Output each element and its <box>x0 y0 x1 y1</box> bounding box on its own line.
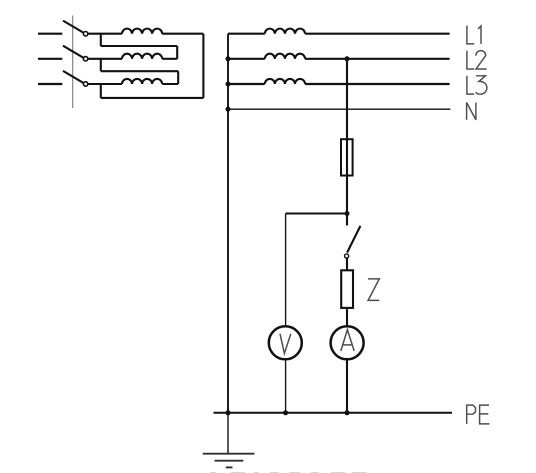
junction L2 tap <box>345 56 350 61</box>
wire impedance to ammeter <box>346 308 348 327</box>
inductor line choke L2 <box>265 54 305 59</box>
wire delta inner riser b <box>176 46 178 59</box>
voltmeter P1 body <box>269 326 302 359</box>
wire line L2 left <box>228 58 265 60</box>
wire ammeter to PE <box>346 359 348 413</box>
inductor Lb <box>122 54 162 59</box>
wire line L1 right <box>305 33 450 35</box>
inductor Lc <box>122 79 162 84</box>
switch S1 pole 3 contact <box>83 82 87 86</box>
junction bus-L2 <box>226 56 231 61</box>
wire line PE <box>214 412 453 414</box>
wire line L3 right <box>305 83 450 85</box>
ammeter P2 body <box>331 326 364 359</box>
wire switch pole 3 to inductor Lc <box>88 83 122 85</box>
label L2 <box>467 51 487 69</box>
junction bus-L3 <box>226 82 231 87</box>
wire line N <box>228 108 450 110</box>
junction bus-N <box>226 107 231 112</box>
junction tap node <box>345 211 350 216</box>
wire delta left riser B <box>100 59 102 71</box>
voltmeter letter V <box>280 334 291 354</box>
switch S1 pole 3 blade <box>63 71 84 83</box>
wire earth stem <box>227 413 229 454</box>
wire voltmeter to PE <box>285 359 287 413</box>
caption remnant (cropped text tops) <box>210 472 367 473</box>
switch S1 pole 1 blade <box>63 21 84 33</box>
label Z <box>368 279 379 301</box>
junction voltmeter-PE <box>283 410 288 415</box>
label L3 <box>467 76 487 94</box>
wire delta left riser C <box>100 34 102 46</box>
wire voltmeter branch vertical <box>285 214 287 327</box>
wire delta middle return <box>101 70 178 72</box>
wire line L3 left <box>228 83 265 85</box>
label PE <box>467 405 490 424</box>
wire contact to impedance <box>346 258 348 270</box>
switch S2 contact <box>345 254 349 258</box>
wire measuring branch from L2 <box>346 59 348 226</box>
wire inductor La output <box>162 33 203 35</box>
wire delta bottom edge <box>101 97 204 99</box>
wire supply bus vertical <box>227 34 229 413</box>
wire delta left riser A <box>100 84 102 98</box>
switch S2 blade <box>347 226 360 253</box>
switch S1 pole 3 input stub <box>38 83 62 85</box>
inductor line choke L1 <box>265 29 305 34</box>
inductor line choke L3 <box>265 79 305 84</box>
wire line L2 right <box>305 58 450 60</box>
wire delta right edge <box>202 34 204 98</box>
wire inductor Lc output <box>162 83 178 85</box>
switch S1 pole 2 contact <box>83 57 87 61</box>
ammeter letter A <box>341 330 354 351</box>
wire delta inner riser c <box>177 71 179 84</box>
wire delta upper return <box>101 45 177 47</box>
wire line L1 left <box>228 33 265 35</box>
switch S1 pole 1 contact <box>83 32 87 36</box>
label N <box>467 103 476 120</box>
fuse F1 <box>341 139 353 175</box>
switch S1 pole 2 input stub <box>38 58 62 60</box>
wire inductor Lb output <box>162 58 177 60</box>
label L1 <box>467 26 481 44</box>
inductor La <box>122 29 162 34</box>
switch S1 pole 2 blade <box>63 46 84 58</box>
switch S1 pole 1 input stub <box>38 33 62 35</box>
ground <box>203 454 255 468</box>
impedance Z <box>341 270 353 308</box>
wire tap to voltmeter branch <box>286 212 347 214</box>
wire switch pole 2 to inductor Lb <box>88 58 122 60</box>
wire switch pole 1 to inductor La <box>88 33 122 35</box>
switch S1 mechanical link <box>72 16 74 109</box>
junction bus-PE <box>226 410 231 415</box>
junction ammeter-PE <box>345 410 350 415</box>
